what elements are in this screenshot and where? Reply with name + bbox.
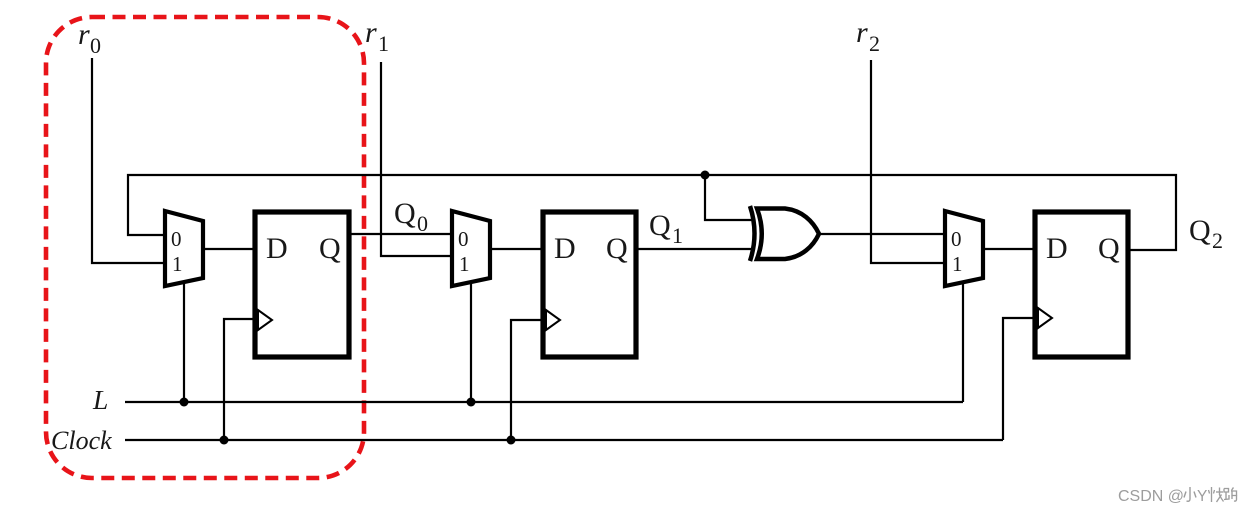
junction: Clock / FF1 clock [220, 436, 229, 445]
label Q1 [649, 209, 683, 248]
svg-text:r: r [365, 16, 377, 49]
D flip-flop FF2 [543, 212, 636, 357]
svg-text:2: 2 [1212, 228, 1223, 253]
svg-text:Clock: Clock [51, 426, 112, 455]
wire: feedback loop from Q2 corner to mux1 input 0 [128, 175, 1176, 250]
svg-text:D: D [266, 232, 288, 265]
multiplexer MUX3 [945, 211, 983, 286]
wire: mux1 output to FF1 D [203, 248, 255, 250]
wire: FF1 Q to mux2 input 0 (node Q0) [349, 233, 452, 235]
label r0 [78, 18, 101, 58]
wire: FF3 clock [1003, 318, 1035, 440]
wire: feedback tap to XOR top input [705, 175, 754, 220]
svg-text:Q: Q [649, 209, 671, 242]
stage-0 highlight box (red dashed) [46, 17, 364, 478]
label r2 [856, 16, 880, 56]
svg-text:0: 0 [90, 33, 101, 58]
svg-text:Q: Q [606, 232, 628, 265]
svg-text:D: D [554, 232, 576, 265]
wire: Clock line [125, 439, 1003, 441]
svg-text:1: 1 [952, 252, 963, 276]
svg-text:Q: Q [1098, 232, 1120, 265]
svg-text:1: 1 [459, 252, 470, 276]
multiplexer MUX1 [165, 211, 203, 286]
wire: r0 input to mux1 input 1 [92, 58, 165, 263]
D flip-flop FF1 [255, 212, 349, 357]
D flip-flop FF3 [1035, 212, 1128, 357]
junction: L / mux2 select [467, 398, 476, 407]
label Clock [51, 426, 112, 455]
svg-text:0: 0 [417, 211, 428, 236]
wire: mux3 output to FF3 D [983, 248, 1035, 250]
svg-text:Q: Q [319, 232, 341, 265]
wire: FF2 clock [511, 320, 543, 440]
XOR gate body [757, 209, 819, 260]
label Q2 [1189, 214, 1223, 253]
junction: feedback tap node [701, 171, 710, 180]
wire: mux1 select to L [183, 280, 185, 402]
XOR gate input arc [750, 206, 755, 261]
svg-text:1: 1 [172, 252, 183, 276]
svg-text:0: 0 [951, 227, 962, 251]
svg-text:1: 1 [378, 31, 389, 56]
svg-text:Q: Q [394, 197, 416, 230]
wire: L line [125, 401, 963, 403]
svg-text:r: r [856, 16, 868, 49]
svg-text:CSDN @: CSDN @ [1118, 488, 1184, 505]
svg-text:Q: Q [1189, 214, 1211, 247]
junction: Clock / FF2 clock [507, 436, 516, 445]
wire: r2 input to mux3 input 1 [871, 60, 945, 263]
svg-text:D: D [1046, 232, 1068, 265]
wire: FF1 clock [224, 319, 255, 440]
svg-text:2: 2 [869, 31, 880, 56]
svg-text:1: 1 [672, 223, 683, 248]
junction: L / mux1 select [180, 398, 189, 407]
wire: r1 input to mux2 input 1 [381, 62, 452, 256]
wire: mux3 select to L [962, 280, 964, 402]
wire: mux2 output to FF2 D [490, 248, 543, 250]
label L [92, 384, 108, 415]
label r1 [365, 16, 389, 56]
svg-text:L: L [92, 384, 108, 415]
wire: XOR output to mux3 input 0 [819, 233, 945, 235]
svg-text:0: 0 [171, 227, 182, 251]
svg-text:r: r [78, 18, 90, 51]
svg-text:Y: Y [1197, 488, 1207, 505]
watermark CSDN @小Y快跑 [1118, 487, 1237, 505]
label Q0 [394, 197, 428, 236]
svg-text:0: 0 [458, 227, 469, 251]
wire: FF2 Q to XOR bottom input (node Q1) [636, 248, 754, 250]
multiplexer MUX2 [452, 211, 490, 286]
wire: mux2 select to L [470, 280, 472, 402]
